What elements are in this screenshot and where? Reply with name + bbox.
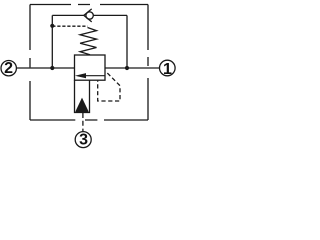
port 2 circle xyxy=(1,60,16,75)
wire port2 horizontal xyxy=(16,67,74,69)
port 3 circle xyxy=(75,132,91,148)
svg-text:1: 1 xyxy=(163,61,172,78)
poppet triangle xyxy=(76,98,89,113)
envelope top edge (dashed) xyxy=(30,4,148,6)
wire top horizontal right xyxy=(93,14,127,16)
poppet box B2 xyxy=(75,80,90,112)
pilot vent dashed line xyxy=(52,25,87,27)
port 1 circle xyxy=(160,60,176,76)
junction dot A xyxy=(50,66,54,70)
envelope bottom edge (dashed) xyxy=(30,119,148,121)
wire port1 horizontal xyxy=(105,67,160,69)
check valve V1 ball xyxy=(86,12,93,19)
arrow flow path xyxy=(75,73,105,78)
envelope left edge (dashed) xyxy=(29,5,31,121)
junction dot B xyxy=(50,24,54,28)
svg-text:3: 3 xyxy=(79,132,88,149)
envelope right edge (dashed) xyxy=(147,5,149,121)
wire vertical riser left xyxy=(51,15,53,68)
wire top horizontal left xyxy=(52,14,84,16)
wire vertical riser right xyxy=(126,15,128,68)
main valve body B1 xyxy=(75,55,106,80)
spring S1 xyxy=(80,28,96,55)
pilot line dashed loop xyxy=(98,71,120,101)
svg-text:2: 2 xyxy=(4,60,13,77)
check valve V1 seat xyxy=(84,9,92,22)
junction dot C xyxy=(125,66,129,70)
port3 dashed stub xyxy=(82,113,84,132)
